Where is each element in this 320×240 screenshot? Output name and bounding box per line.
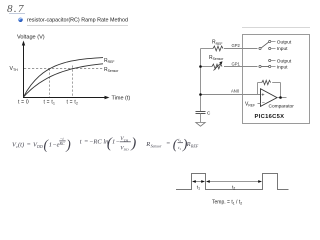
svg-text:−: − — [262, 101, 265, 107]
svg-text:+: + — [261, 92, 264, 98]
svg-text:PIC16C5X: PIC16C5X — [255, 114, 285, 120]
svg-text:Sensor: Sensor — [151, 144, 162, 149]
svg-text:8.7: 8.7 — [7, 3, 25, 15]
svg-text:): ) — [65, 137, 71, 152]
svg-text:RSensor: RSensor — [209, 55, 224, 61]
svg-text:R: R — [186, 141, 191, 148]
svg-text:Comparator: Comparator — [269, 103, 295, 109]
svg-text:R: R — [145, 141, 150, 148]
svg-text:=: = — [27, 142, 31, 149]
svg-text:Time (t): Time (t) — [112, 96, 131, 102]
svg-text:Output: Output — [277, 39, 292, 45]
svg-text:GP2: GP2 — [232, 43, 241, 48]
svg-text:RC: RC — [59, 141, 65, 146]
svg-text:Input: Input — [277, 46, 288, 52]
svg-text:−RC ln: −RC ln — [89, 139, 108, 146]
svg-text:): ) — [130, 136, 136, 152]
svg-text:GP1: GP1 — [232, 61, 241, 66]
svg-text:DD: DD — [36, 144, 43, 149]
svg-text:RSensor: RSensor — [104, 67, 119, 73]
svg-text:t1: t1 — [197, 185, 200, 191]
svg-text:t1: t1 — [178, 145, 181, 151]
svg-text:VREF: VREF — [245, 101, 255, 107]
svg-text:t = t2: t = t2 — [67, 99, 79, 105]
svg-text:REF: REF — [190, 144, 199, 149]
svg-text:resistor-capacitor(RC) Ramp Ra: resistor-capacitor(RC) Ramp Rate Method — [27, 18, 128, 24]
svg-text:RREF: RREF — [104, 58, 114, 64]
svg-text:AN0: AN0 — [231, 88, 240, 93]
svg-text:VTH: VTH — [120, 136, 128, 142]
svg-text:VTH: VTH — [10, 66, 19, 72]
svg-text:Temp. = t1 / t2: Temp. = t1 / t2 — [212, 200, 242, 206]
svg-text:t = t1: t = t1 — [44, 99, 56, 105]
svg-text:(t): (t) — [18, 142, 24, 149]
svg-text:Output: Output — [277, 58, 292, 64]
svg-text:=: = — [166, 140, 170, 147]
svg-text:C: C — [207, 110, 211, 115]
svg-text:t = 0: t = 0 — [18, 99, 29, 105]
svg-text:VDD: VDD — [120, 146, 129, 152]
svg-text:t: t — [80, 139, 82, 146]
svg-text:−: − — [116, 139, 120, 146]
svg-text:=: = — [84, 139, 88, 146]
svg-text:RREF: RREF — [212, 40, 222, 46]
svg-text:Voltage (V): Voltage (V) — [17, 35, 45, 41]
svg-text:t2: t2 — [232, 185, 235, 191]
svg-text:Input: Input — [277, 64, 288, 70]
svg-text:t2: t2 — [178, 137, 181, 143]
